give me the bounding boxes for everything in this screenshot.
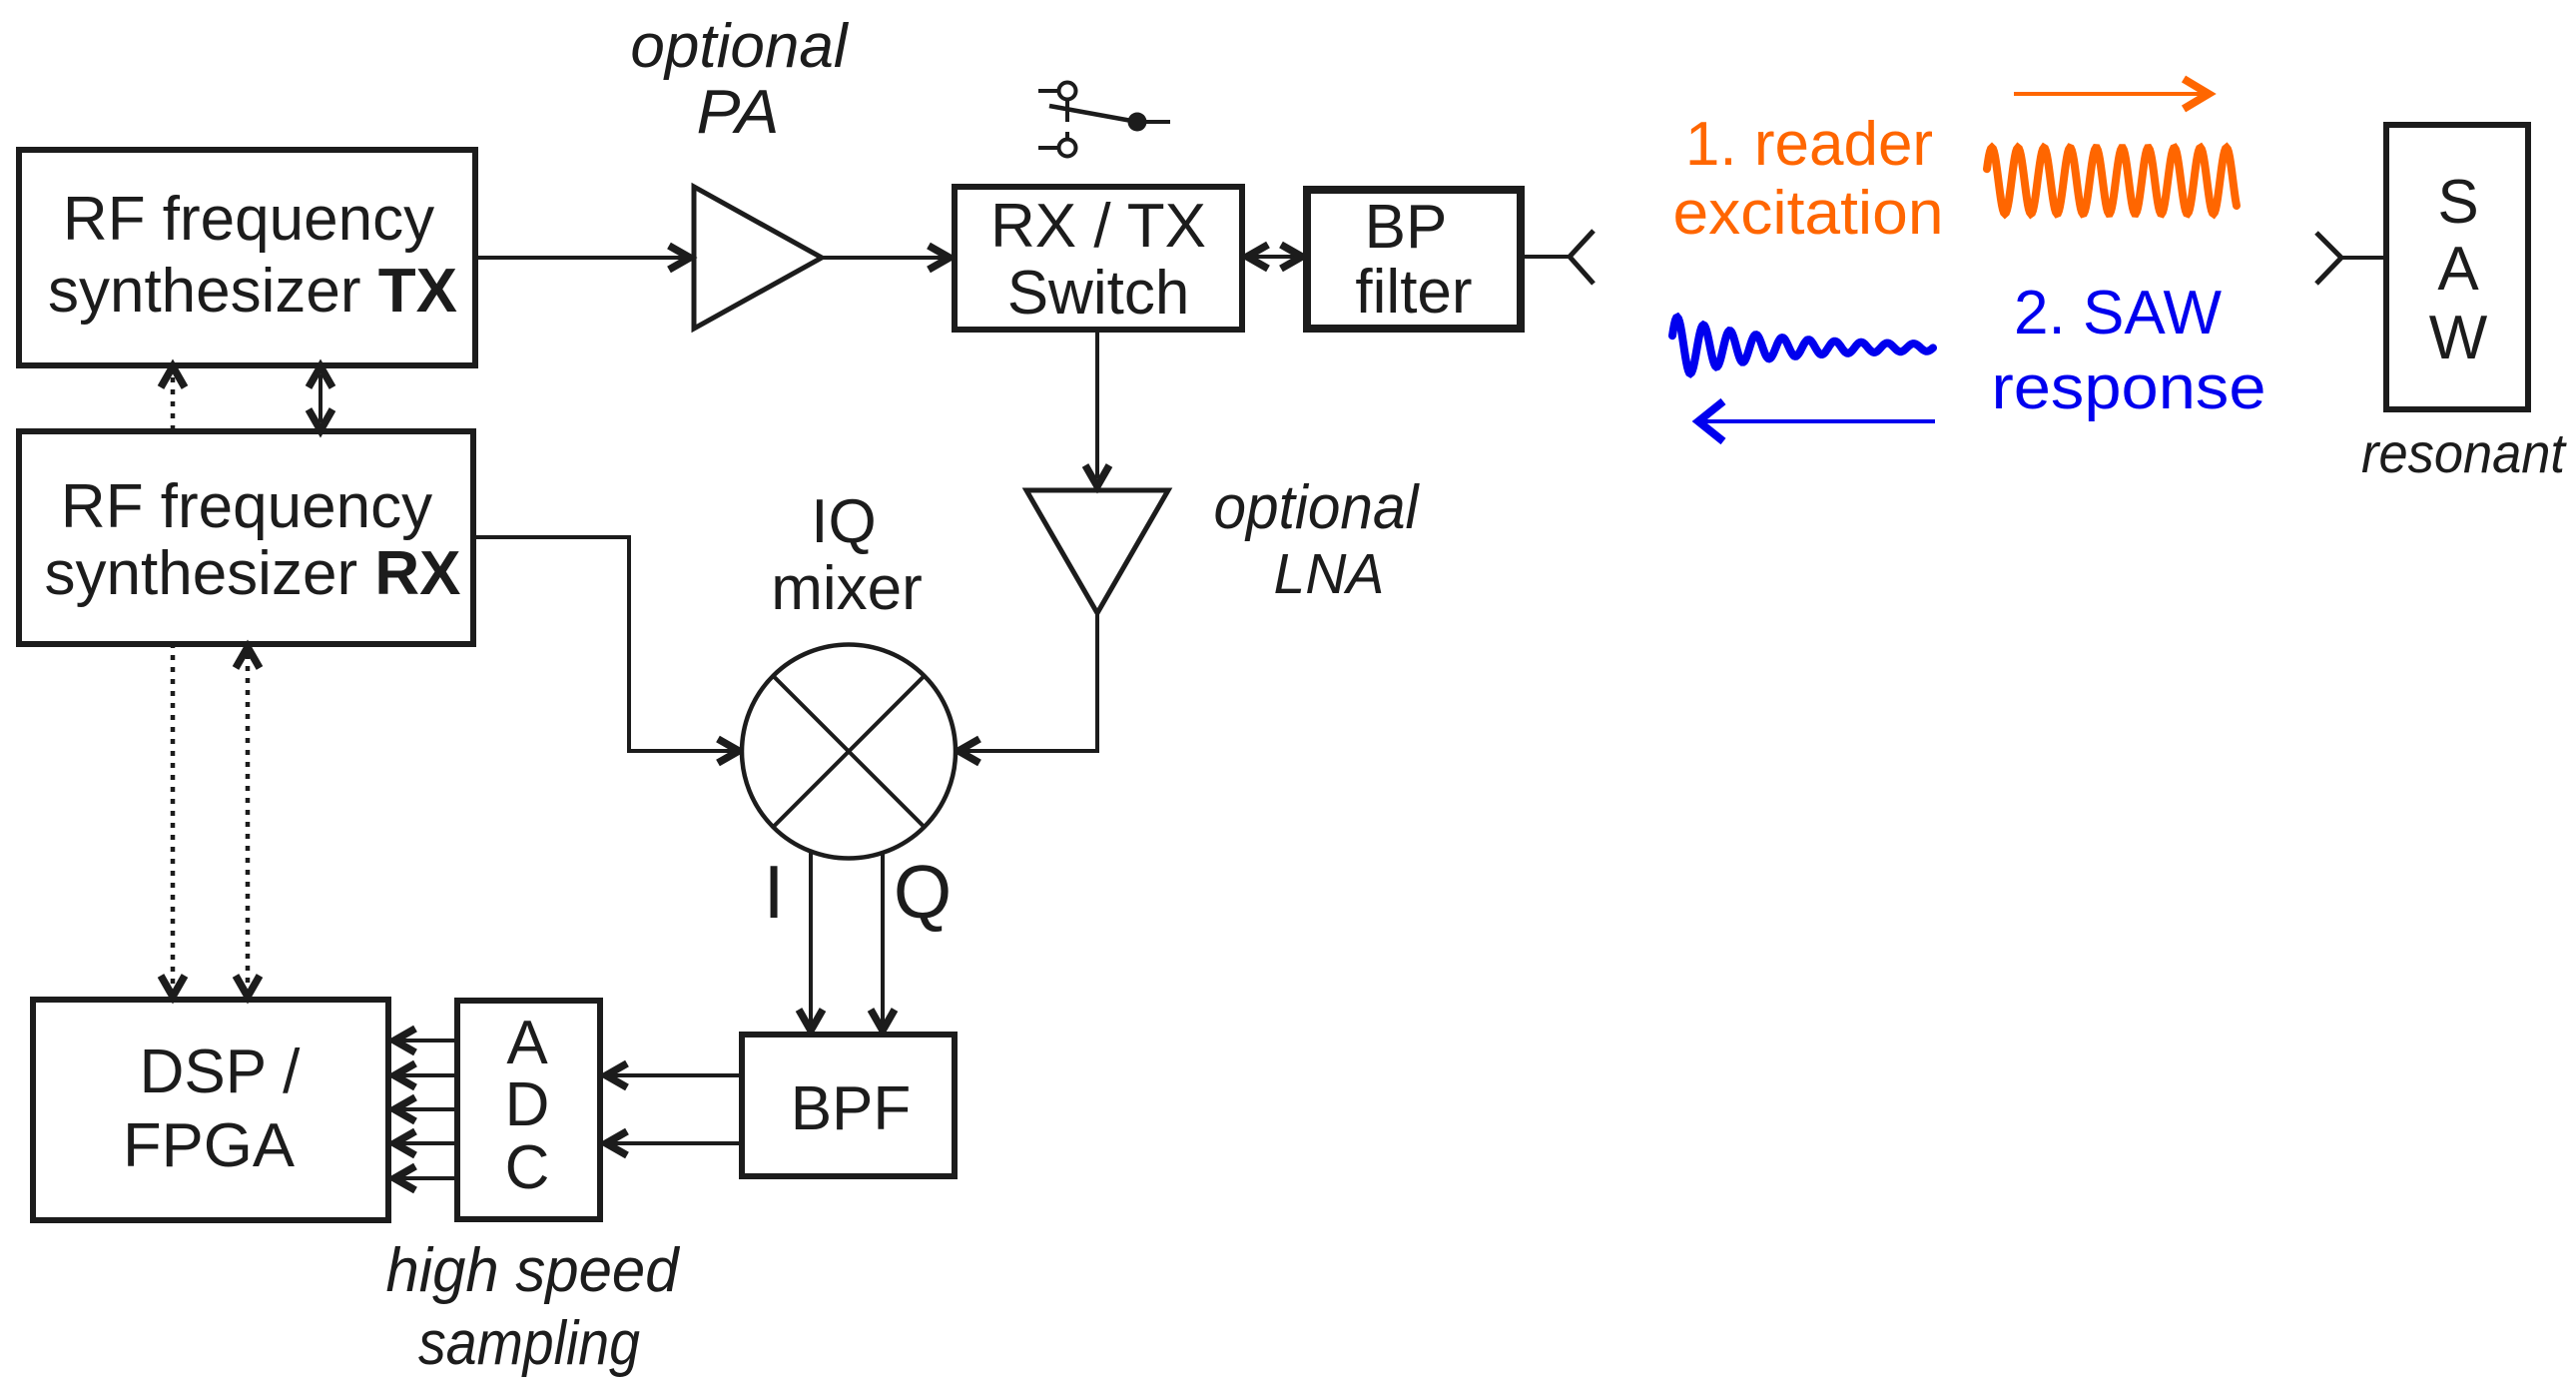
wire: mixer I output to BPF xyxy=(799,852,823,1031)
amplifier PA (optional) xyxy=(694,187,822,329)
svg-text:excitation: excitation xyxy=(1673,179,1944,248)
svg-text:DSP /: DSP / xyxy=(140,1038,302,1106)
svg-text:A: A xyxy=(506,1009,548,1077)
svg-text:1. reader: 1. reader xyxy=(1685,110,1933,179)
svg-text:optional: optional xyxy=(630,12,849,81)
svg-text:D: D xyxy=(505,1070,550,1139)
wire: BPF to ADC channel 1 xyxy=(606,1063,742,1087)
svg-text:S: S xyxy=(2437,168,2478,237)
node label Q xyxy=(894,850,952,934)
label: optional LNA xyxy=(1214,473,1421,606)
antenna ANT2 (SAW tag) xyxy=(2316,233,2386,284)
block F1: BP filter xyxy=(1307,190,1521,329)
arrow: SAW response direction (blue, left) xyxy=(1698,401,1935,441)
wire: LNA to mixer RF input xyxy=(959,613,1097,763)
svg-text:FPGA: FPGA xyxy=(123,1111,296,1180)
svg-text:Q: Q xyxy=(894,850,952,934)
block: SAW resonator xyxy=(2386,125,2528,409)
svg-text:C: C xyxy=(505,1133,550,1202)
svg-text:response: response xyxy=(1992,353,2266,422)
label: IQ mixer xyxy=(771,487,923,623)
svg-text:RX / TX: RX / TX xyxy=(990,192,1206,261)
svg-text:A: A xyxy=(2437,235,2479,304)
block U5: DSP / FPGA xyxy=(33,1000,388,1220)
wire: PA to RX/TX switch xyxy=(822,246,950,270)
switch S1 symbol above xyxy=(1038,83,1170,157)
block U1: RF frequency synthesizer TX xyxy=(19,150,475,365)
arrow: reader excitation direction (orange, right) xyxy=(2014,79,2209,109)
wire: TX-RX synth sync (double arrow) xyxy=(309,366,332,430)
wire: RX synth LO to mixer xyxy=(473,537,739,763)
waveform: reader excitation burst (orange sine) xyxy=(1987,148,2237,214)
dotted control: RX synth to/from DSP (double arrow) xyxy=(236,647,260,997)
wire: switch to BP filter (bidirectional) xyxy=(1247,245,1302,269)
amplifier LNA (optional, pointing down) xyxy=(1026,490,1168,613)
svg-text:resonant: resonant xyxy=(2361,421,2567,484)
svg-text:BP: BP xyxy=(1365,193,1448,262)
label: high speed sampling xyxy=(386,1236,681,1378)
mixer M1 (IQ mixer) xyxy=(742,645,956,859)
svg-text:filter: filter xyxy=(1355,258,1472,327)
svg-text:PA: PA xyxy=(697,78,780,147)
svg-text:I: I xyxy=(764,850,785,934)
block U2: RF frequency synthesizer RX xyxy=(19,431,473,644)
antenna ANT1 (reader) xyxy=(1521,231,1594,284)
svg-text:W: W xyxy=(2429,304,2488,372)
svg-text:IQ: IQ xyxy=(811,487,876,556)
wire: switch down to LNA xyxy=(1085,330,1109,486)
block U4: ADC xyxy=(457,1001,600,1219)
bus: ADC to DSP (5 lines) xyxy=(394,1029,457,1190)
label: optional PA xyxy=(630,12,849,147)
svg-text:mixer: mixer xyxy=(771,554,923,623)
label: 2. SAW response (blue) xyxy=(1992,279,2266,422)
wire: TX synth output to PA xyxy=(475,246,690,270)
label: resonant xyxy=(2361,421,2567,484)
svg-text:synthesizer RX: synthesizer RX xyxy=(45,539,461,608)
block F2: BPF (baseband) xyxy=(742,1035,955,1176)
label: 1. reader excitation (orange) xyxy=(1673,110,1944,248)
dotted control: TX synth from DSP xyxy=(161,366,185,431)
svg-text:LNA: LNA xyxy=(1274,542,1385,606)
dotted control: behind RX box down to DSP xyxy=(161,643,185,997)
svg-text:Switch: Switch xyxy=(1007,259,1190,328)
waveform: SAW response (blue decaying sine) xyxy=(1672,318,1933,373)
wire: BPF to ADC channel 2 xyxy=(606,1131,742,1155)
block U3: RX / TX Switch xyxy=(955,187,1242,330)
wire: mixer Q output to BPF xyxy=(871,854,895,1031)
svg-text:RF frequency: RF frequency xyxy=(61,472,432,541)
node label I xyxy=(764,850,785,934)
svg-text:RF frequency: RF frequency xyxy=(63,185,434,254)
svg-text:BPF: BPF xyxy=(791,1074,912,1143)
svg-text:high speed: high speed xyxy=(386,1236,681,1305)
svg-text:2. SAW: 2. SAW xyxy=(2014,279,2222,347)
svg-text:optional: optional xyxy=(1214,473,1421,542)
svg-text:synthesizer TX: synthesizer TX xyxy=(48,257,457,326)
svg-text:sampling: sampling xyxy=(418,1309,640,1378)
